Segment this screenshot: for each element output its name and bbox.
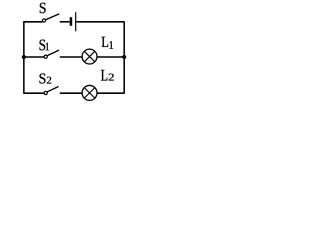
wire: middle row, lamp L1 to right bus [97, 56, 124, 58]
switch S2 blade [47, 87, 58, 92]
switch S1 blade [47, 50, 59, 56]
lamp L1 cross [84, 51, 95, 62]
switch S pivot circle [42, 19, 45, 22]
wire: bottom row, switch S2 to lamp L2 [60, 92, 82, 94]
lamp L2 circle [82, 85, 97, 100]
node: junction left bus / middle row [22, 55, 26, 59]
wire: bottom row, lamp L2 to right bus [97, 92, 125, 94]
lamp L2 cross [84, 88, 95, 99]
lamp L1 circle [82, 49, 97, 64]
wire: bottom row, left bus to switch S2 [23, 92, 44, 94]
wire: middle row, left bus to switch S1 [24, 56, 44, 58]
switch S1 pivot circle [44, 55, 47, 58]
node: junction right bus / middle row [122, 55, 126, 59]
wire: left vertical bus [23, 22, 25, 93]
wire: middle row, switch S1 to lamp L1 [60, 56, 82, 58]
wire: top row, battery to right bus [76, 21, 124, 23]
battery positive plate (long thin) [75, 12, 76, 31]
switch S2 pivot circle [44, 91, 47, 94]
label S2 [40, 74, 52, 84]
wire: top row, switch S to battery [60, 21, 70, 23]
wire: right vertical bus [123, 22, 125, 93]
label S [40, 3, 46, 13]
battery negative plate (short thick) [70, 17, 73, 26]
wire: top row, left bus to switch S [23, 21, 42, 23]
label S1 [40, 40, 49, 51]
label L2 [101, 70, 114, 81]
switch S blade [46, 14, 60, 20]
label L1 [102, 37, 113, 49]
